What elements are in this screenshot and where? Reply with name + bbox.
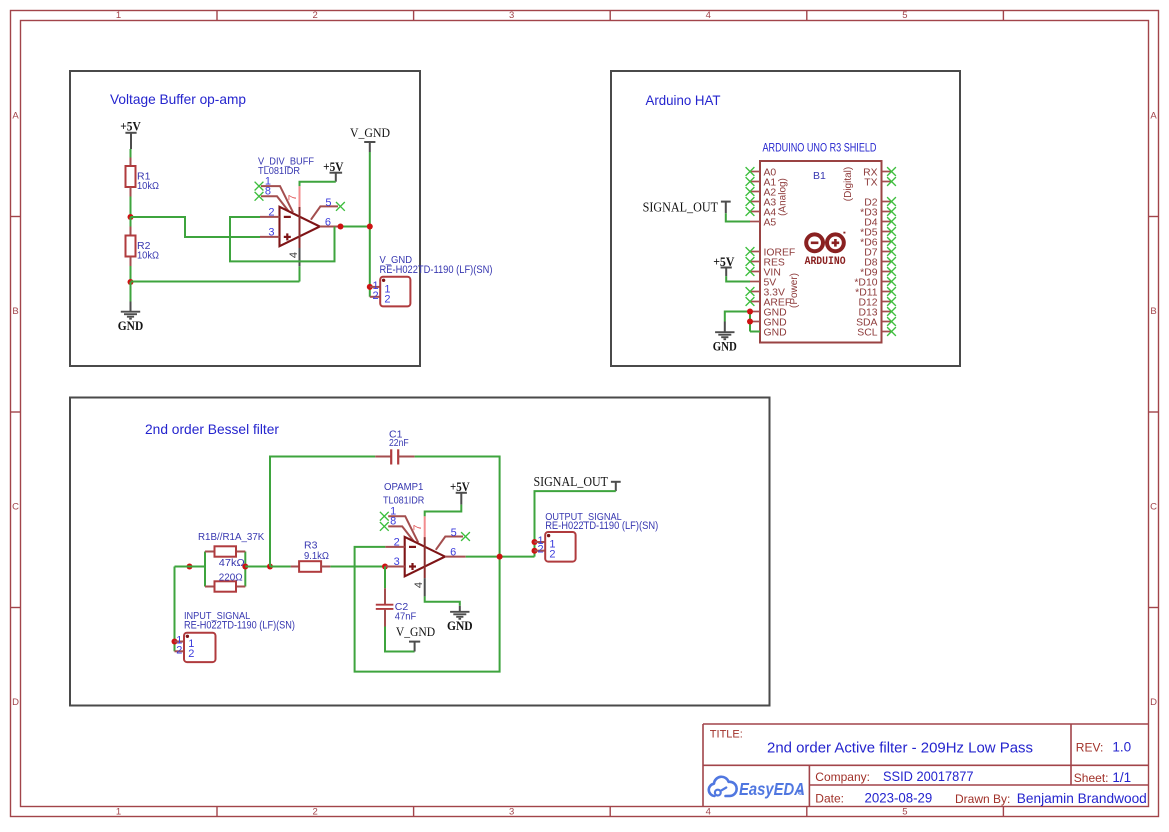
svg-text:1.0: 1.0	[1112, 740, 1131, 755]
svg-text:5: 5	[325, 197, 331, 209]
no-connect D7	[887, 247, 896, 256]
svg-text:2nd order Active filter - 209H: 2nd order Active filter - 209Hz Low Pass	[767, 739, 1033, 756]
svg-text:7: 7	[412, 525, 424, 531]
no-connect RX	[887, 167, 896, 176]
svg-text:Voltage Buffer op-amp: Voltage Buffer op-amp	[110, 91, 246, 107]
connector OUTPUT_SIGNAL RE-H022TD-1190	[535, 512, 659, 562]
svg-text:D: D	[12, 697, 19, 708]
svg-text:1: 1	[116, 10, 121, 21]
shield pin A1 (left, y=181.5)	[750, 178, 776, 189]
svg-text:B: B	[1150, 306, 1156, 317]
junction GND node	[128, 279, 134, 285]
ground GND (divider)	[118, 282, 143, 333]
svg-text:V_GND: V_GND	[350, 125, 390, 140]
svg-text:2nd order Bessel filter: 2nd order Bessel filter	[145, 421, 279, 437]
svg-text:2023-08-29: 2023-08-29	[865, 791, 933, 806]
svg-text:2: 2	[268, 206, 274, 218]
net flag SIGNAL_OUT (filter output)	[534, 475, 621, 491]
svg-text:EasyEDA: EasyEDA	[739, 779, 805, 799]
svg-text:4: 4	[413, 582, 425, 588]
svg-text:C: C	[12, 502, 19, 513]
svg-text:5: 5	[902, 807, 907, 818]
svg-text:RE-H022TD-1190 (LF)(SN): RE-H022TD-1190 (LF)(SN)	[545, 520, 658, 532]
wire midpoint to op-amp pin 3	[131, 217, 261, 237]
shield pin *D5 (right, y=231.5)	[860, 228, 891, 239]
no-connect A0	[746, 167, 755, 176]
wire feedback output to pin 2	[230, 217, 335, 261]
svg-text:B: B	[12, 306, 18, 317]
resistor R3 9.1kΩ	[291, 540, 331, 572]
svg-text:SCL: SCL	[857, 328, 877, 339]
no-connect pin 8	[255, 192, 264, 201]
svg-text:SIGNAL_OUT: SIGNAL_OUT	[534, 475, 609, 490]
junction C1 branch	[267, 564, 273, 570]
resistor R1	[126, 158, 160, 197]
svg-text:3: 3	[509, 10, 514, 21]
svg-text:5: 5	[451, 527, 457, 539]
wire SIGNAL_OUT to output	[535, 491, 616, 556]
svg-text:TX: TX	[864, 178, 877, 189]
shield pin *D6 (right, y=241.5)	[860, 238, 891, 249]
junction GND pin 1	[747, 309, 753, 315]
wire +5V to 5V pin	[726, 276, 750, 281]
no-connect *D5	[887, 227, 896, 236]
no-connect SDA	[887, 317, 896, 326]
no-connect D4	[887, 217, 896, 226]
shield pin GND (left, y=321.5)	[750, 318, 787, 329]
no-connect AREF	[746, 297, 755, 306]
junction divider midpoint	[128, 214, 134, 220]
wire pin 4 down	[299, 266, 301, 281]
svg-text:A: A	[12, 111, 19, 122]
svg-text:SSID 20017877: SSID 20017877	[883, 768, 974, 784]
resistor R1A 220Ω	[205, 571, 245, 591]
power flag +5V (filter op-amp)	[450, 479, 470, 505]
svg-text:(Digital): (Digital)	[843, 167, 854, 201]
svg-text:1: 1	[116, 807, 121, 818]
svg-text:REV:: REV:	[1076, 740, 1104, 754]
power flag +5V (divider top)	[120, 119, 141, 149]
svg-text:4: 4	[706, 807, 711, 818]
wire C1 branch up	[270, 457, 375, 567]
power flag +5V (op-amp supply)	[323, 159, 344, 182]
section box: Arduino HAT	[611, 71, 960, 366]
net flag V_GND (filter)	[396, 624, 435, 652]
no-connect *D11	[887, 287, 896, 296]
wire C1 to output node	[415, 457, 500, 557]
wire R1 to node	[130, 197, 132, 218]
svg-text:A: A	[1150, 111, 1157, 122]
shield B1 ARDUINO UNO R3 SHIELD	[760, 143, 882, 343]
section box: 2nd order Bessel filter	[70, 398, 770, 706]
wire node to R2	[130, 217, 132, 227]
shield pin *D11 (right, y=291.5)	[855, 288, 891, 299]
net flag SIGNAL_OUT (to A5)	[643, 200, 731, 215]
wire R1B to C1 node	[245, 566, 270, 568]
ground GND (shield)	[713, 322, 737, 354]
shield pin RES (left, y=261.5)	[750, 258, 785, 269]
svg-text:2: 2	[312, 807, 317, 818]
capacitor C1 22nF	[375, 429, 414, 465]
svg-text:47nF: 47nF	[395, 610, 416, 622]
no-connect VIN	[746, 267, 755, 276]
shield pin *D9 (right, y=271.5)	[860, 268, 891, 279]
shield pin D7 (right, y=251.5)	[864, 248, 891, 259]
svg-text:6: 6	[325, 216, 331, 228]
junction V_GND output	[367, 224, 373, 230]
svg-text:4: 4	[706, 10, 711, 21]
shield pin IOREF (left, y=251.5)	[750, 248, 795, 259]
connector INPUT_SIGNAL RE-H022TD-1190	[175, 611, 296, 662]
svg-text:GND: GND	[713, 339, 737, 354]
net flag V_GND	[350, 125, 390, 152]
shield pin AREF (left, y=301.5)	[750, 298, 791, 309]
shield pin TX (right, y=181.5)	[864, 178, 891, 189]
junction connector input pin 1	[172, 639, 178, 645]
no-connect *D10	[887, 277, 896, 286]
shield pin D4 (right, y=221.5)	[864, 218, 891, 229]
junction connector output pin 1	[532, 539, 538, 545]
svg-text:6: 6	[450, 547, 456, 559]
no-connect A4	[746, 207, 755, 216]
svg-text:Company:: Company:	[815, 770, 870, 784]
svg-text:2: 2	[384, 293, 390, 305]
shield pin GND (left, y=311.5)	[750, 308, 787, 319]
wire GND bus	[725, 312, 760, 332]
wire +5V to R1	[130, 149, 132, 158]
svg-text:4: 4	[288, 252, 300, 258]
svg-text:Arduino HAT: Arduino HAT	[646, 92, 721, 108]
no-connect D2	[887, 197, 896, 206]
no-connect pin 8	[380, 522, 389, 531]
wire pin 4 to GND	[425, 596, 460, 605]
wire input to R1B	[175, 566, 206, 568]
wire input vertical	[174, 567, 176, 652]
shield pin SDA (right, y=321.5)	[856, 318, 891, 329]
svg-text:D: D	[1150, 697, 1157, 708]
svg-text:2: 2	[394, 536, 400, 548]
no-connect A2	[746, 187, 755, 196]
svg-text:10kΩ: 10kΩ	[137, 180, 159, 192]
shield pin *D10 (right, y=281.5)	[854, 278, 891, 289]
svg-text:7: 7	[287, 194, 299, 200]
svg-text:A5: A5	[764, 218, 777, 229]
no-connect D12	[887, 297, 896, 306]
svg-text:GND: GND	[118, 318, 143, 333]
svg-text:8: 8	[390, 516, 396, 528]
shield pin D12 (right, y=301.5)	[858, 298, 891, 309]
svg-text:V_GND: V_GND	[396, 624, 435, 639]
junction R1B right	[242, 564, 248, 570]
junction connector pin 1	[367, 284, 373, 290]
section box: Voltage Buffer op-amp	[70, 71, 420, 366]
shield pin A3 (left, y=201.5)	[750, 198, 776, 209]
no-connect pin 1	[380, 512, 389, 521]
svg-text:Date:: Date:	[815, 791, 844, 805]
no-connect *D3	[887, 207, 896, 216]
no-connect D13	[887, 307, 896, 316]
shield pin 3.3V (left, y=291.5)	[750, 288, 785, 299]
svg-text:Drawn By:: Drawn By:	[955, 792, 1010, 806]
svg-text:2: 2	[188, 648, 194, 660]
ground GND (filter)	[447, 606, 473, 633]
svg-text:47kΩ: 47kΩ	[219, 557, 245, 569]
svg-text:B1: B1	[813, 170, 826, 182]
no-connect pin 1	[255, 182, 264, 191]
svg-text:+5V: +5V	[450, 479, 470, 494]
EasyEDA logo	[709, 777, 805, 799]
no-connect pin 5	[336, 202, 345, 211]
svg-text:TITLE:: TITLE:	[710, 729, 743, 741]
shield pin VIN (left, y=271.5)	[750, 268, 781, 279]
shield pin A2 (left, y=191.5)	[750, 188, 776, 199]
wire net V_GND vertical	[369, 152, 371, 297]
shield pin *D3 (right, y=211.5)	[860, 208, 891, 219]
junction input node	[187, 564, 193, 570]
wire output	[466, 556, 535, 558]
shield pin 5V (left, y=281.5)	[750, 278, 776, 289]
wire R2 to GND node	[130, 266, 132, 282]
svg-text:1/1: 1/1	[1112, 770, 1131, 785]
no-connect IOREF	[746, 247, 755, 256]
svg-text:2: 2	[372, 290, 378, 302]
shield pin GND (left, y=331.5)	[750, 328, 787, 339]
svg-text:Benjamin Brandwood: Benjamin Brandwood	[1017, 790, 1147, 806]
no-connect SCL	[887, 327, 896, 336]
svg-text:2: 2	[549, 548, 555, 560]
no-connect TX	[887, 177, 896, 186]
no-connect *D6	[887, 237, 896, 246]
wire GND node to op-amp pin 4	[131, 281, 300, 283]
wire output	[341, 226, 370, 228]
junction output C1	[497, 554, 503, 560]
svg-text:3: 3	[268, 226, 274, 238]
no-connect A1	[746, 177, 755, 186]
svg-text:10kΩ: 10kΩ	[137, 249, 159, 261]
svg-text:C: C	[1150, 502, 1157, 513]
svg-text:ARDUINO UNO R3 SHIELD: ARDUINO UNO R3 SHIELD	[763, 143, 877, 155]
power flag +5V (shield)	[713, 254, 735, 276]
svg-text:ARDUINO: ARDUINO	[805, 256, 846, 268]
wire pin3 to C2	[384, 567, 386, 589]
no-connect pin 5	[461, 532, 470, 541]
no-connect A3	[746, 197, 755, 206]
svg-text:Sheet:: Sheet:	[1074, 771, 1109, 785]
svg-text:220Ω: 220Ω	[219, 571, 243, 583]
shield pin D8 (right, y=261.5)	[864, 258, 891, 269]
wire C2 to V_GND	[385, 627, 415, 652]
junction GND pin 2	[747, 319, 753, 325]
no-connect *D9	[887, 267, 896, 276]
svg-text:2: 2	[537, 544, 543, 556]
resistor pair R1B//R1A_37K	[198, 531, 264, 592]
svg-text:RE-H022TD-1190 (LF)(SN): RE-H022TD-1190 (LF)(SN)	[380, 264, 493, 276]
shield pin RX (right, y=171.5)	[863, 168, 891, 179]
wire +5V to pin 7	[300, 182, 336, 186]
junction op-amp pin 3 node	[382, 564, 388, 570]
svg-text:5: 5	[902, 10, 907, 21]
connector V_GND RE-H022TD-1190	[370, 255, 493, 307]
svg-text:3: 3	[509, 807, 514, 818]
svg-text:8: 8	[265, 186, 271, 198]
resistor R2	[126, 227, 160, 267]
svg-text:2: 2	[312, 10, 317, 21]
svg-text:3: 3	[394, 556, 400, 568]
shield pin A5 (left, y=221.5)	[750, 218, 776, 229]
wire R3 to pin 3	[330, 566, 386, 568]
no-connect D8	[887, 257, 896, 266]
svg-text:R1B//R1A_37K: R1B//R1A_37K	[198, 531, 264, 543]
svg-text:OPAMP1: OPAMP1	[384, 482, 424, 493]
svg-text:+5V: +5V	[120, 119, 141, 134]
svg-text:R: R	[799, 790, 802, 795]
svg-text:GND: GND	[447, 618, 473, 633]
shield pin SCL (right, y=331.5)	[857, 328, 891, 339]
Arduino logo	[805, 232, 846, 268]
capacitor C2 47nF	[376, 588, 416, 626]
shield pin A0 (left, y=171.5)	[750, 168, 776, 179]
resistor R1B 47kΩ	[205, 546, 245, 569]
shield pin D13 (right, y=311.5)	[858, 308, 891, 319]
shield pin A4 (left, y=211.5)	[750, 208, 776, 219]
wire SIGNAL_OUT to A5	[726, 213, 750, 221]
title block	[703, 724, 1149, 807]
junction connector output pin 2	[532, 548, 538, 554]
wire +5V to pin 7	[425, 505, 462, 517]
wire feedback loop	[355, 547, 500, 672]
svg-text:GND: GND	[764, 328, 787, 339]
svg-text:SIGNAL_OUT: SIGNAL_OUT	[643, 200, 719, 215]
svg-text:(Analog): (Analog)	[778, 178, 789, 216]
no-connect RES	[746, 257, 755, 266]
junction output pin 6	[338, 224, 344, 230]
shield pin D2 (right, y=201.5)	[864, 198, 891, 209]
svg-text:2: 2	[176, 644, 182, 656]
wire C1 node to R3	[270, 566, 291, 568]
svg-text:22nF: 22nF	[389, 437, 409, 449]
op-amp U2 OPAMP1 TL081IDR	[383, 482, 466, 597]
no-connect 3.3V	[746, 287, 755, 296]
op-amp U1 V_DIV_BUFF TL081IDR	[258, 157, 341, 267]
svg-text:RE-H022TD-1190 (LF)(SN): RE-H022TD-1190 (LF)(SN)	[184, 620, 295, 632]
